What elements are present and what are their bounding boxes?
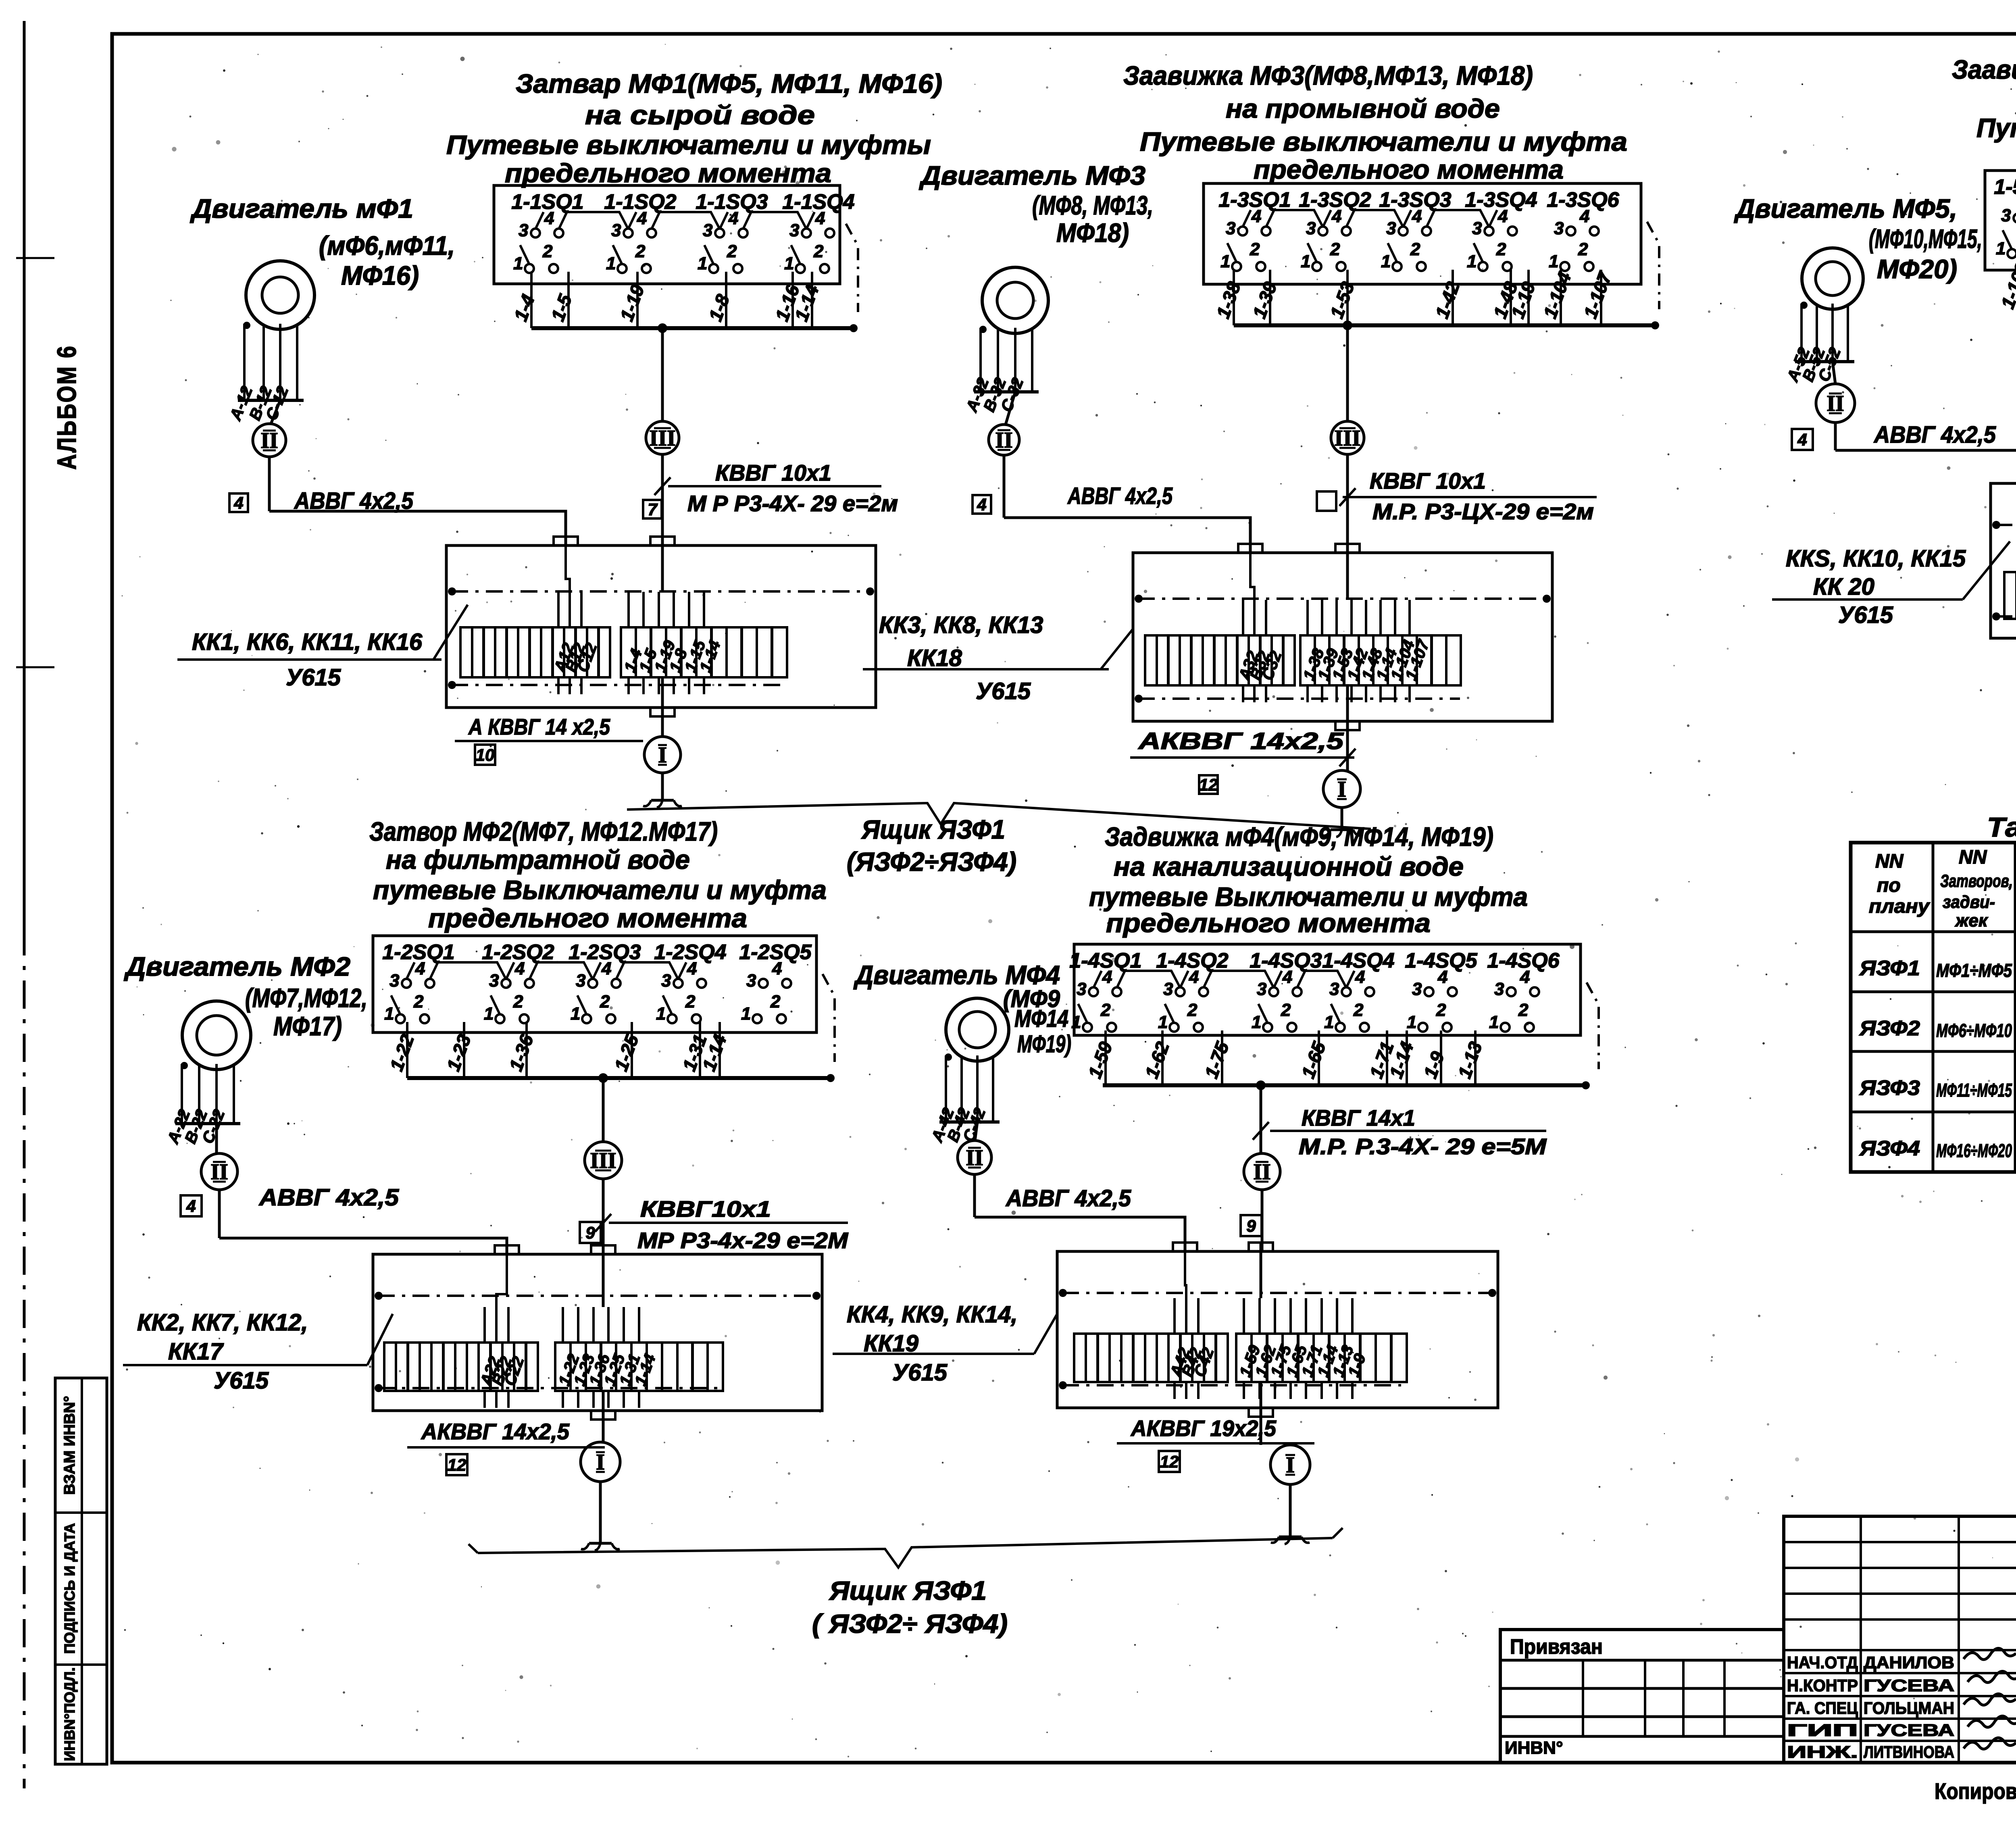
svg-text:КВВГ 10х1: КВВГ 10х1: [715, 460, 831, 485]
svg-text:МФ17): МФ17): [273, 1011, 342, 1041]
svg-text:12: 12: [448, 1455, 467, 1474]
svg-text:2: 2: [1518, 1000, 1529, 1020]
svg-text:НАЧ.ОТД: НАЧ.ОТД: [1787, 1653, 1858, 1672]
svg-text:3: 3: [661, 971, 671, 991]
svg-text:задви-: задви-: [1943, 892, 1995, 912]
svg-text:( ЯЗФ2÷ ЯЗФ4): ( ЯЗФ2÷ ЯЗФ4): [812, 1609, 1008, 1638]
svg-text:на сырой воде: на сырой воде: [585, 100, 815, 130]
svg-text:У615: У615: [976, 678, 1031, 704]
svg-text:Двигатель МФ2: Двигатель МФ2: [124, 951, 350, 981]
svg-text:ИНВN°: ИНВN°: [1505, 1738, 1563, 1758]
svg-text:2: 2: [1281, 1000, 1291, 1020]
svg-text:9: 9: [1246, 1216, 1256, 1235]
svg-text:3: 3: [1329, 979, 1339, 999]
svg-text:2: 2: [1187, 1000, 1198, 1020]
svg-text:2: 2: [1100, 1000, 1111, 1020]
svg-text:плану: плану: [1869, 896, 1930, 917]
svg-text:1: 1: [1381, 252, 1391, 271]
svg-text:2: 2: [542, 241, 553, 261]
svg-text:3: 3: [1494, 979, 1504, 999]
svg-text:4: 4: [1497, 206, 1508, 226]
svg-text:NN: NN: [1875, 851, 1904, 872]
svg-text:4: 4: [1437, 967, 1447, 987]
svg-text:на промывной воде: на промывной воде: [1226, 94, 1500, 123]
svg-text:(МФ10,МФ15,: (МФ10,МФ15,: [1869, 224, 1982, 254]
svg-text:2: 2: [1436, 1000, 1446, 1020]
svg-text:4: 4: [544, 208, 554, 228]
svg-text:4: 4: [514, 959, 525, 978]
svg-text:на фильтратной воде: на фильтратной воде: [386, 845, 690, 874]
svg-text:ГОЛЬЦМАН: ГОЛЬЦМАН: [1864, 1699, 1954, 1717]
svg-text:М.Р. Р.3-4Х- 29 е=5М: М.Р. Р.3-4Х- 29 е=5М: [1299, 1134, 1547, 1159]
svg-text:МФ18): МФ18): [1056, 218, 1129, 248]
svg-text:4: 4: [1797, 430, 1807, 449]
svg-text:Затвор МФ2(МФ7, МФ12.МФ17): Затвор МФ2(МФ7, МФ12.МФ17): [369, 816, 718, 846]
svg-text:2: 2: [413, 992, 424, 1012]
svg-text:3: 3: [1412, 979, 1422, 999]
svg-text:ИНЖ.: ИНЖ.: [1787, 1742, 1858, 1761]
svg-text:4: 4: [1412, 206, 1422, 226]
svg-text:3: 3: [576, 971, 585, 991]
svg-text:путевые Выключатели и муфта: путевые Выключатели и муфта: [1089, 882, 1528, 912]
svg-text:NN: NN: [1959, 847, 1987, 868]
svg-text:1: 1: [384, 1004, 394, 1024]
svg-text:1: 1: [606, 254, 616, 273]
svg-text:ЯЗФ2: ЯЗФ2: [1859, 1017, 1920, 1040]
svg-text:2: 2: [1250, 239, 1260, 259]
svg-text:1: 1: [1407, 1012, 1416, 1032]
svg-text:АКВВГ 14х2,5: АКВВГ 14х2,5: [1137, 728, 1344, 754]
svg-text:4: 4: [728, 208, 738, 228]
svg-text:1: 1: [784, 254, 794, 273]
svg-text:КВВГ10х1: КВВГ10х1: [640, 1196, 771, 1222]
svg-text:Заавижка МФ3(МФ8,МФ13, МФ18): Заавижка МФ3(МФ8,МФ13, МФ18): [1123, 60, 1533, 90]
svg-text:ДАНИЛОВ: ДАНИЛОВ: [1864, 1653, 1954, 1672]
svg-text:1: 1: [1467, 252, 1477, 271]
svg-text:2: 2: [727, 241, 737, 261]
svg-text:4: 4: [687, 959, 697, 978]
svg-text:2: 2: [600, 992, 610, 1012]
svg-text:ЯЗФ4: ЯЗФ4: [1859, 1137, 1920, 1160]
svg-text:Путевые выключатели и муфты: Путевые выключатели и муфты: [446, 130, 931, 160]
svg-text:АЛЬБОМ 6: АЛЬБОМ 6: [52, 345, 81, 470]
svg-text:МФ19): МФ19): [1017, 1030, 1071, 1057]
svg-text:3: 3: [789, 221, 799, 240]
svg-text:Заавижка МФ5(МФ10, МФ15, МФ50): Заавижка МФ5(МФ10, МФ15, МФ50): [1952, 54, 2016, 84]
svg-text:АВВГ 4х2,5: АВВГ 4х2,5: [294, 488, 414, 514]
svg-text:АКВВГ 19х2,5: АКВВГ 19х2,5: [1130, 1415, 1277, 1441]
svg-text:3: 3: [1226, 219, 1235, 238]
svg-text:путевые Выключатели и муфта: путевые Выключатели и муфта: [373, 875, 827, 905]
svg-text:1: 1: [698, 254, 707, 273]
svg-text:3: 3: [2001, 206, 2011, 225]
svg-text:3: 3: [746, 971, 756, 991]
svg-text:АВВГ 4х2,5: АВВГ 4х2,5: [1873, 422, 1996, 448]
svg-text:ВЗАМ ИНВN°: ВЗАМ ИНВN°: [61, 1396, 78, 1495]
svg-text:ККS, КК10, КК15: ККS, КК10, КК15: [1786, 545, 1966, 572]
svg-text:4: 4: [1520, 967, 1530, 987]
svg-text:2: 2: [813, 241, 824, 261]
svg-text:2: 2: [1330, 239, 1340, 259]
svg-text:2: 2: [1578, 239, 1588, 259]
svg-text:4: 4: [186, 1197, 196, 1216]
svg-text:КК2, КК7, КК12,: КК2, КК7, КК12,: [137, 1309, 308, 1336]
svg-text:АВВГ 4х2,5: АВВГ 4х2,5: [1005, 1185, 1131, 1211]
svg-text:1: 1: [1549, 252, 1558, 271]
svg-text:МФ14: МФ14: [1014, 1005, 1068, 1032]
svg-text:3: 3: [611, 221, 621, 240]
svg-text:МФ20): МФ20): [1877, 254, 1957, 284]
svg-text:У615: У615: [1838, 602, 1893, 628]
svg-text:2: 2: [685, 992, 696, 1012]
svg-text:МФ16): МФ16): [341, 260, 419, 290]
svg-text:2: 2: [513, 992, 523, 1012]
svg-text:МФ11÷МФ15: МФ11÷МФ15: [1936, 1080, 2012, 1101]
svg-text:9: 9: [585, 1223, 595, 1242]
svg-text:1-5SQ1: 1-5SQ1: [1994, 175, 2016, 199]
svg-text:1: 1: [1071, 1012, 1081, 1032]
svg-text:КВВГ 10х1: КВВГ 10х1: [1370, 468, 1486, 493]
svg-text:КК 20: КК 20: [1813, 574, 1874, 600]
svg-text:12: 12: [1160, 1452, 1179, 1471]
svg-text:Затвар МФ1(МФ5, МФ11, МФ16): Затвар МФ1(МФ5, МФ11, МФ16): [516, 69, 942, 98]
svg-text:ЛИТВИНОВА: ЛИТВИНОВА: [1864, 1742, 1954, 1761]
svg-text:4: 4: [977, 495, 986, 514]
svg-text:1: 1: [1301, 252, 1310, 271]
svg-text:У615: У615: [286, 664, 341, 691]
svg-text:Двигатель МФ3: Двигатель МФ3: [919, 160, 1145, 190]
svg-text:КК1, КК6, КК11, КК16: КК1, КК6, КК11, КК16: [192, 629, 423, 655]
svg-text:(мФ6,мФ11,: (мФ6,мФ11,: [319, 231, 455, 260]
svg-text:Путевые выключатели и муфта: Путевые выключатели и муфта: [1140, 127, 1627, 156]
svg-text:КК17: КК17: [168, 1338, 224, 1365]
svg-text:(МФ7,МФ12,: (МФ7,МФ12,: [245, 983, 367, 1013]
svg-text:Таблица применения: Таблица применения: [1987, 812, 2016, 843]
svg-text:Привязан: Привязан: [1510, 1635, 1603, 1659]
svg-text:Ящик ЯЗФ1: Ящик ЯЗФ1: [829, 1576, 987, 1605]
svg-text:2: 2: [1496, 239, 1506, 259]
svg-text:У615: У615: [892, 1359, 948, 1386]
svg-text:3: 3: [489, 971, 499, 991]
svg-text:1: 1: [1489, 1012, 1499, 1032]
svg-text:12: 12: [1199, 775, 1218, 794]
svg-text:3: 3: [1077, 979, 1086, 999]
svg-text:4: 4: [1189, 967, 1199, 987]
svg-text:3: 3: [703, 221, 712, 240]
svg-text:3: 3: [1163, 979, 1173, 999]
svg-text:(ЯЗФ2÷ЯЗФ4): (ЯЗФ2÷ЯЗФ4): [847, 847, 1016, 876]
svg-text:КК18: КК18: [907, 645, 962, 671]
svg-text:4: 4: [1102, 967, 1112, 987]
svg-text:ЯЗФ3: ЯЗФ3: [1859, 1076, 1920, 1100]
svg-text:М.Р. Р3-ЦХ-29 е=2м: М.Р. Р3-ЦХ-29 е=2м: [1372, 499, 1594, 524]
svg-text:предельного момента: предельного момента: [428, 903, 747, 933]
svg-text:Копировал: Коршунова: Копировал: Коршунова: [1935, 1778, 2016, 1804]
svg-text:КВВГ 14х1: КВВГ 14х1: [1302, 1105, 1415, 1130]
svg-text:2: 2: [770, 992, 781, 1012]
svg-text:4: 4: [1331, 206, 1341, 226]
svg-text:1: 1: [1252, 1012, 1261, 1032]
svg-text:ЯЗФ1: ЯЗФ1: [1859, 957, 1920, 980]
svg-text:ГА. СПЕЦ: ГА. СПЕЦ: [1787, 1699, 1858, 1717]
svg-text:3: 3: [1472, 219, 1482, 238]
svg-text:МФ6÷МФ10: МФ6÷МФ10: [1936, 1020, 2012, 1041]
svg-text:АКВВГ 14х2,5: АКВВГ 14х2,5: [421, 1419, 570, 1444]
svg-text:4: 4: [601, 959, 611, 978]
svg-text:7: 7: [648, 500, 658, 519]
svg-text:4: 4: [772, 959, 782, 978]
svg-text:жек: жек: [1955, 911, 1989, 930]
svg-text:предельного момента: предельного момента: [1106, 908, 1431, 938]
svg-text:1: 1: [741, 1004, 751, 1024]
svg-text:2: 2: [635, 241, 646, 261]
svg-text:предельного момента: предельного момента: [1254, 154, 1564, 184]
svg-text:4: 4: [415, 959, 425, 978]
svg-text:4: 4: [1282, 967, 1292, 987]
svg-text:4: 4: [233, 493, 243, 512]
svg-text:4: 4: [1355, 967, 1365, 987]
svg-text:3: 3: [389, 971, 399, 991]
svg-text:АВВГ 4х2,5: АВВГ 4х2,5: [1067, 483, 1173, 509]
svg-text:А КВВГ 14 х2,5: А КВВГ 14 х2,5: [468, 714, 610, 739]
svg-text:КК3, КК8, КК13: КК3, КК8, КК13: [879, 612, 1043, 638]
svg-text:2: 2: [1353, 1000, 1364, 1020]
svg-text:(МФ8, МФ13,: (МФ8, МФ13,: [1032, 190, 1153, 220]
svg-text:1: 1: [1996, 239, 2006, 258]
svg-text:1: 1: [513, 254, 523, 273]
svg-text:3: 3: [1386, 219, 1396, 238]
svg-text:4: 4: [637, 208, 647, 228]
svg-text:3: 3: [1554, 219, 1564, 238]
svg-text:3: 3: [1306, 219, 1316, 238]
svg-text:Путевые выключатели и муфта: Путевые выключатели и муфта: [1976, 113, 2016, 143]
svg-text:Ящик ЯЗФ1: Ящик ЯЗФ1: [861, 814, 1005, 844]
svg-text:ГУСЕВА: ГУСЕВА: [1864, 1721, 1954, 1740]
svg-text:АВВГ 4х2,5: АВВГ 4х2,5: [258, 1184, 399, 1211]
svg-text:КК4, КК9, КК14,: КК4, КК9, КК14,: [847, 1301, 1018, 1328]
svg-text:Н.КОНТР: Н.КОНТР: [1787, 1676, 1858, 1695]
svg-text:1: 1: [656, 1004, 666, 1024]
svg-text:1: 1: [1220, 252, 1230, 271]
svg-text:4: 4: [1251, 206, 1261, 226]
svg-text:ИНВN°ПОДЛ.: ИНВN°ПОДЛ.: [61, 1667, 78, 1761]
svg-text:Двигатель мФ1: Двигатель мФ1: [190, 194, 413, 223]
svg-text:1: 1: [1158, 1012, 1168, 1032]
svg-text:Задвижка мФ4(мФ9, МФ14, МФ19): Задвижка мФ4(мФ9, МФ14, МФ19): [1105, 822, 1493, 851]
svg-text:1: 1: [571, 1004, 580, 1024]
svg-text:3: 3: [1257, 979, 1266, 999]
svg-text:ПОДПИСЬ И ДАТА: ПОДПИСЬ И ДАТА: [61, 1523, 78, 1654]
svg-text:ГИП: ГИП: [1787, 1721, 1858, 1740]
svg-text:2: 2: [1410, 239, 1420, 259]
svg-text:4: 4: [1579, 206, 1589, 226]
svg-text:1: 1: [1324, 1012, 1334, 1032]
svg-text:МР Р3-4х-29 е=2М: МР Р3-4х-29 е=2М: [637, 1228, 848, 1253]
svg-text:У615: У615: [214, 1368, 269, 1394]
svg-text:по: по: [1877, 875, 1901, 896]
svg-text:на канализационной воде: на канализационной воде: [1114, 851, 1464, 881]
svg-text:4: 4: [815, 208, 825, 228]
svg-text:МФ16÷МФ20: МФ16÷МФ20: [1936, 1140, 2012, 1161]
svg-text:МФ1÷МФ5: МФ1÷МФ5: [1936, 960, 2012, 981]
svg-text:М Р Р3-4Х- 29 е=2м: М Р Р3-4Х- 29 е=2м: [687, 491, 898, 516]
svg-text:10: 10: [476, 745, 495, 764]
svg-text:Двигатель МФ5,: Двигатель МФ5,: [1734, 194, 1957, 223]
svg-text:1: 1: [484, 1004, 494, 1024]
svg-text:ГУСЕВА: ГУСЕВА: [1864, 1676, 1954, 1695]
svg-text:Затворов,: Затворов,: [1940, 871, 2013, 891]
svg-text:3: 3: [519, 221, 528, 240]
